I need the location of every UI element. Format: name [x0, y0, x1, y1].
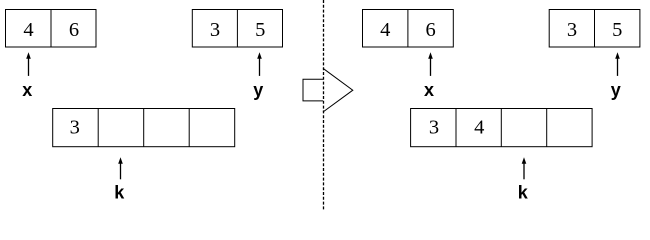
- svg-text:6: 6: [69, 19, 79, 41]
- left 4-cell array k: [53, 109, 235, 147]
- right arrow y: [615, 52, 620, 76]
- left pair box x: cells 4|6: [6, 10, 97, 48]
- svg-text:x: x: [424, 80, 434, 100]
- big transform arrow head (triangle, 2 sides): [323, 68, 353, 112]
- big transform arrow tail (rectangle, 3 sides): [303, 79, 323, 101]
- svg-text:y: y: [611, 80, 621, 100]
- svg-text:k: k: [518, 183, 529, 203]
- right pair box y: cells 3|5: [549, 10, 640, 48]
- svg-text:k: k: [114, 183, 125, 203]
- svg-text:5: 5: [255, 19, 265, 41]
- svg-text:y: y: [253, 80, 263, 100]
- svg-text:3: 3: [567, 19, 577, 41]
- svg-text:4: 4: [474, 117, 484, 139]
- right arrow x: [428, 52, 433, 76]
- right 4-cell array k: [411, 109, 592, 147]
- svg-text:4: 4: [23, 19, 33, 41]
- left pair box y: cells 3|5: [192, 10, 282, 48]
- svg-text:3: 3: [70, 117, 80, 139]
- left arrow k: [118, 157, 123, 179]
- left arrow x: [26, 52, 31, 76]
- right arrow k: [522, 157, 527, 179]
- left arrow y: [257, 52, 262, 76]
- svg-text:5: 5: [612, 19, 622, 41]
- svg-text:6: 6: [425, 19, 435, 41]
- svg-text:3: 3: [429, 117, 439, 139]
- right pair box x: cells 4|6: [363, 10, 454, 48]
- svg-text:3: 3: [210, 19, 220, 41]
- dashed divider line: [323, 0, 325, 210]
- svg-text:4: 4: [380, 19, 390, 41]
- svg-text:x: x: [22, 80, 32, 100]
